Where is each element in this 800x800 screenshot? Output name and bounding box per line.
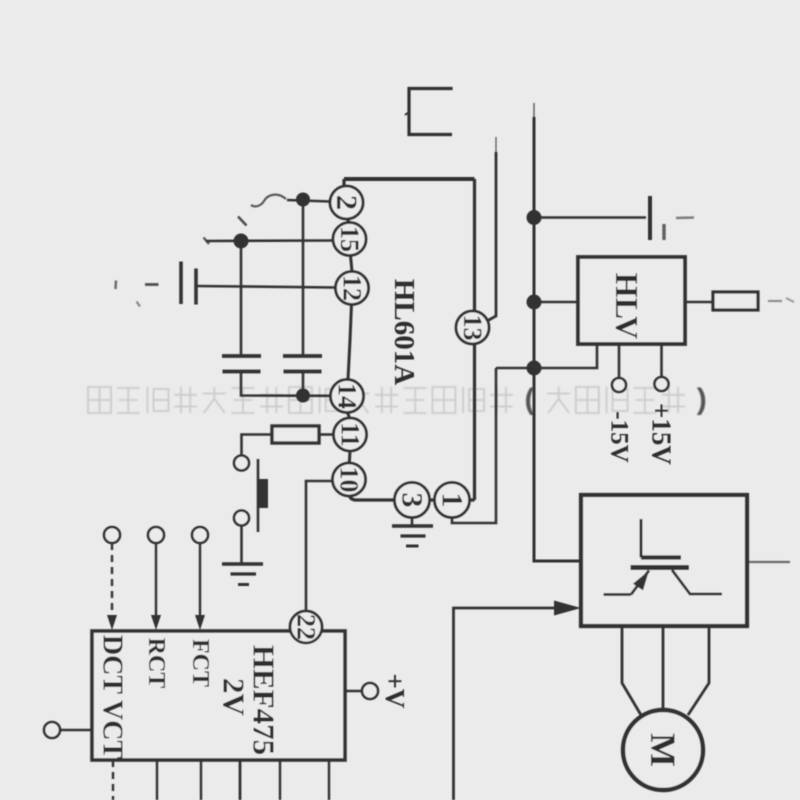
motor M <box>623 710 703 790</box>
wire net y368 to HLV bottom <box>496 345 597 368</box>
terminal DCT input <box>104 527 120 630</box>
wire R1 left lead down to switch <box>242 435 273 456</box>
node junction bus-cap <box>527 210 542 225</box>
dash artifacts right of R2 <box>768 298 794 302</box>
svg-text:M: M <box>643 733 683 767</box>
terminal -15V stub <box>612 344 626 392</box>
switch S1 terminal bottom <box>234 511 249 526</box>
switch S1 actuator <box>258 459 268 532</box>
svg-text:11: 11 <box>336 422 365 447</box>
node junction on pin15 net <box>234 234 249 249</box>
dashed stub left of C1 <box>116 281 159 307</box>
svg-text:22: 22 <box>292 614 321 640</box>
dash artifact right of C3 <box>676 216 694 219</box>
svg-text:+15V: +15V <box>647 403 677 465</box>
label +V <box>380 674 410 709</box>
ground under switch <box>222 564 263 585</box>
Q1 gate bar <box>641 555 681 559</box>
Q1 collector diagonal <box>672 570 722 594</box>
capacitor C3 left plate <box>648 196 652 240</box>
pin 3 <box>395 483 430 518</box>
squiggle artifact left of pin2 wire <box>251 195 286 207</box>
wire C2a bottom stub <box>302 372 305 396</box>
terminal left VCT <box>44 722 92 738</box>
node junction bus-HLV <box>527 295 542 310</box>
svg-text:13: 13 <box>458 315 487 341</box>
pin 13 <box>456 311 489 344</box>
label +15V <box>647 403 677 465</box>
svg-text:12: 12 <box>338 275 367 301</box>
svg-text:+V: +V <box>380 674 410 709</box>
terminal RCT input <box>148 527 164 630</box>
terminal +15V stub <box>655 344 669 391</box>
capacitor C1 plates (left, on pin12 net) <box>181 262 196 305</box>
motor M leads <box>622 627 641 715</box>
svg-text:HL601A: HL601A <box>388 279 420 385</box>
wire pin10 to pin22 <box>306 481 333 611</box>
svg-text:): ) <box>697 383 707 416</box>
transistor Q1 IGBT box <box>581 495 747 626</box>
U2 label HLV <box>609 273 645 339</box>
op-amp U1 HL601A box <box>344 179 475 500</box>
svg-text:1: 1 <box>436 493 469 508</box>
wire pin1 to bus net <box>452 368 496 523</box>
Q1 body bar <box>631 565 690 570</box>
capacitor C3 wire from bus <box>534 216 646 219</box>
resistor R1 <box>272 426 319 443</box>
svg-text:RCT: RCT <box>143 638 169 689</box>
capacitor C2a plates (x=303) <box>283 356 322 372</box>
wire HLV right to R2 <box>685 301 713 303</box>
wire pin12 net <box>196 286 336 288</box>
svg-text:DCT VCT: DCT VCT <box>97 635 128 760</box>
diagonal artifact mark <box>238 217 247 226</box>
U3 input label FCT <box>187 639 213 687</box>
wire R1 right lead to pin11 <box>319 433 334 436</box>
pin 11 <box>334 418 367 451</box>
U3 input label DCT VCT <box>97 635 128 760</box>
wire Q1 right stub <box>747 561 790 563</box>
svg-text:3: 3 <box>396 493 429 508</box>
capacitor C2b plates (x=241) <box>222 356 261 372</box>
wire pin13 net vertical <box>487 137 496 321</box>
pin 2 <box>330 186 363 219</box>
converter U2 HLV box <box>578 257 685 344</box>
wire switch to ground <box>240 526 243 565</box>
wire vertical from pin15 junction down to C2b <box>240 241 243 356</box>
Q1 emitter lead <box>604 593 632 596</box>
node junction on pin14 net <box>296 389 310 403</box>
wire drive arrow into Q1 <box>454 601 582 800</box>
timer U3 HEF475 box <box>92 631 345 760</box>
terminal FCT input <box>192 527 208 630</box>
node junction on pin2 net <box>296 193 310 207</box>
wire pin15 net <box>206 239 333 242</box>
wire pin2 net <box>287 200 330 202</box>
connector C-shape top <box>405 89 453 135</box>
capacitor C3 right plate partial <box>662 224 665 240</box>
node junction bus-y368 <box>527 361 542 376</box>
svg-text:2: 2 <box>330 195 363 210</box>
resistor R2 <box>713 292 758 310</box>
ground under pin3 <box>392 516 433 546</box>
switch S1 terminal top <box>234 456 249 471</box>
svg-text:10: 10 <box>335 467 364 493</box>
svg-text:15: 15 <box>335 226 364 252</box>
pin 10 <box>333 463 366 496</box>
U1 label HL601A <box>388 279 420 385</box>
Q1 gate lead <box>640 519 643 558</box>
wire vertical from pin2 junction down to C2a <box>302 200 305 357</box>
wire bus to HLV left <box>534 301 578 304</box>
svg-text:2V: 2V <box>217 678 252 717</box>
svg-text:HLV: HLV <box>609 273 645 339</box>
Q1 emitter diagonal with arrow <box>631 571 649 595</box>
power bus wire <box>534 103 581 561</box>
svg-text:-15V: -15V <box>606 411 633 462</box>
pin 12 <box>336 272 369 305</box>
U3 bottom pin wires <box>112 760 114 800</box>
wire C2b bottom to pin14 net <box>241 372 331 396</box>
U3 label HEF475 2V <box>217 645 282 755</box>
pin 1 <box>435 483 470 518</box>
svg-text:14: 14 <box>333 383 362 409</box>
tick artifact at left end of pin15 wire <box>204 238 210 245</box>
pin 15 <box>333 223 366 256</box>
svg-text:FCT: FCT <box>187 639 213 687</box>
pin 14 <box>331 380 364 413</box>
label -15V <box>606 411 633 462</box>
terminal +V <box>345 683 378 699</box>
U3 input label RCT <box>143 638 169 689</box>
pin 22 <box>290 611 322 643</box>
